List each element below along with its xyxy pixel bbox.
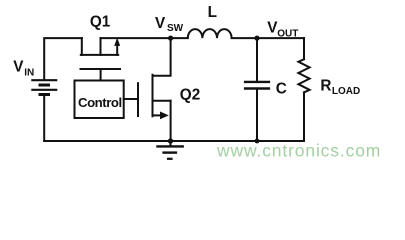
wire VSW down to Q2 drain bbox=[153, 38, 171, 76]
wire VOUT down to C bbox=[256, 38, 258, 81]
svg-text:R: R bbox=[320, 78, 331, 95]
wire top rail L to corner bbox=[232, 37, 304, 39]
transistor Q1 bbox=[81, 38, 121, 80]
capacitor C bbox=[244, 82, 270, 89]
svg-text:V: V bbox=[13, 59, 24, 76]
wire VIN bottom bbox=[43, 95, 45, 142]
ground bbox=[156, 138, 184, 159]
wire bottom rail bbox=[44, 140, 304, 142]
svg-text:Q2: Q2 bbox=[180, 86, 200, 103]
node C-ground junction bbox=[255, 139, 260, 144]
svg-text:www.cntronics.com: www.cntronics.com bbox=[216, 141, 381, 161]
label VIN bbox=[13, 59, 34, 79]
node VOUT bbox=[254, 36, 259, 41]
svg-text:SW: SW bbox=[167, 23, 184, 34]
resistor RLOAD bbox=[298, 38, 309, 141]
svg-text:OUT: OUT bbox=[277, 28, 298, 39]
node VSW bbox=[168, 36, 173, 41]
transistor Q2 bbox=[138, 75, 171, 117]
battery VIN bbox=[31, 80, 57, 94]
svg-text:V: V bbox=[155, 15, 166, 32]
label VSW bbox=[155, 15, 184, 34]
inductor L bbox=[188, 29, 232, 38]
wire control to Q2 gate bbox=[124, 98, 138, 100]
wire VIN top bbox=[44, 38, 82, 80]
svg-text:IN: IN bbox=[24, 67, 34, 78]
wire top rail VSW to L bbox=[101, 37, 188, 39]
svg-text:LOAD: LOAD bbox=[332, 86, 360, 97]
svg-text:C: C bbox=[276, 80, 287, 97]
svg-text:Q1: Q1 bbox=[90, 14, 111, 31]
wire Q2 source to ground rail bbox=[170, 101, 172, 141]
label VOUT bbox=[267, 20, 298, 40]
svg-text:L: L bbox=[208, 4, 217, 21]
wire C to bottom rail bbox=[256, 89, 258, 141]
control block U1 bbox=[75, 81, 124, 119]
svg-text:Control: Control bbox=[78, 95, 122, 110]
label RLOAD bbox=[320, 78, 360, 97]
